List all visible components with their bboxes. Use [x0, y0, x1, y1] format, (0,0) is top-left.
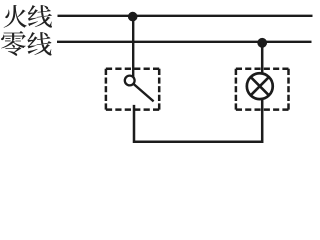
wire: live line to switch	[132, 16, 134, 79]
lamp enclosure (dashed box)	[236, 69, 289, 110]
lamp circle	[247, 73, 273, 99]
junction node on live line	[128, 12, 138, 22]
switch blade (open)	[134, 84, 154, 101]
wire: live line (huo xian)	[58, 15, 313, 17]
label huoxian (live wire)	[4, 5, 27, 28]
wire: neutral line (ling xian)	[57, 41, 312, 43]
lamp cross (X)	[251, 77, 269, 95]
switch pivot circle	[125, 76, 135, 86]
switch enclosure (dashed box)	[106, 69, 159, 110]
junction node on neutral line	[257, 38, 267, 48]
label lingxian (neutral wire)	[1, 31, 26, 56]
wire: neutral line to lamp	[261, 42, 264, 75]
wire: switch output to lamp return	[134, 100, 262, 142]
